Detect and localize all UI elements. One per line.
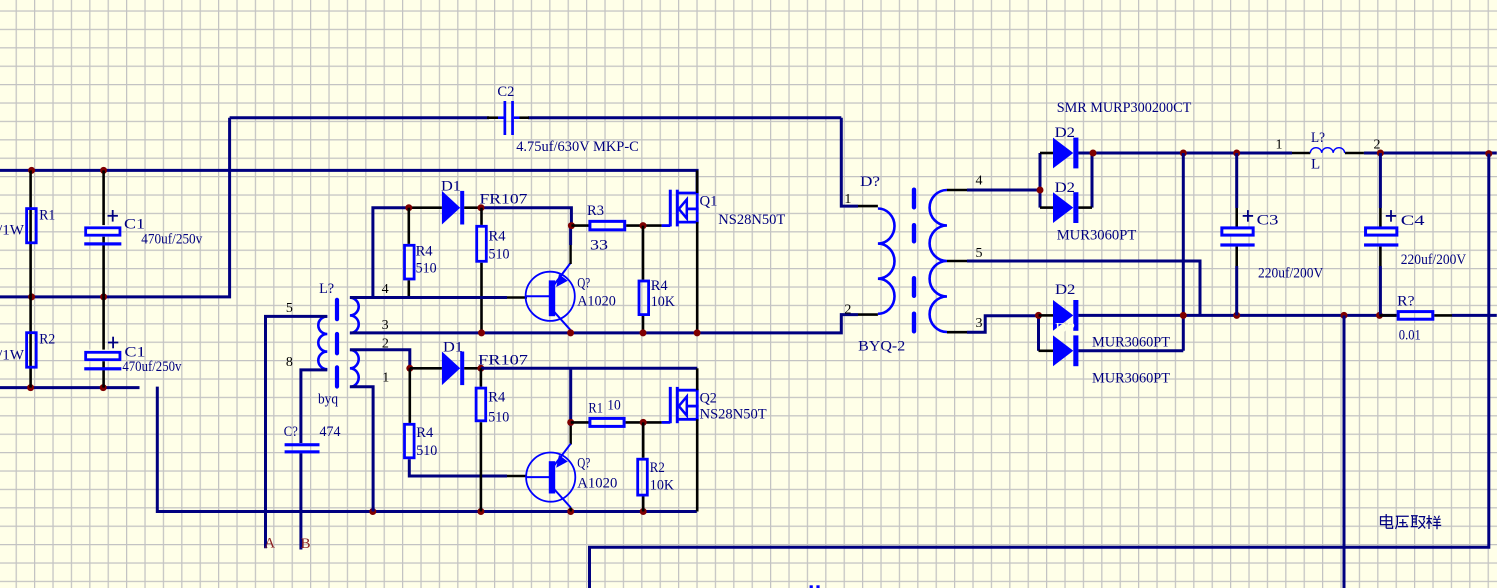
node dots bottom bus	[369, 508, 376, 515]
svg-text:10: 10	[607, 397, 621, 413]
capacitor C2	[487, 116, 498, 119]
svg-text:R4: R4	[416, 244, 433, 260]
wire C2 link corner to pin1	[841, 118, 858, 206]
svg-text:220uf/200V: 220uf/200V	[1401, 252, 1466, 268]
wire upper subcircuit top link	[373, 208, 409, 298]
svg-text:Q2: Q2	[700, 390, 717, 406]
wire rectifier link vertical	[1182, 153, 1185, 351]
wire rectifier lower connectors	[1037, 315, 1040, 350]
wire D1 cathode to R3 node	[481, 208, 571, 226]
transistor Q? A1020 lower	[526, 453, 575, 502]
diode D2 upper first	[1040, 152, 1053, 155]
svg-text:510: 510	[416, 261, 437, 277]
component stub bottom edge	[810, 585, 813, 588]
svg-text:C4: C4	[1401, 213, 1425, 229]
label voltage sense 电压取样	[1381, 514, 1442, 529]
diode D1 lower	[406, 365, 413, 372]
resistor R4 510 third	[408, 368, 411, 423]
resistor R? 0.01	[1380, 314, 1397, 317]
svg-text:5: 5	[286, 301, 293, 316]
svg-text:0.01: 0.01	[1399, 328, 1421, 344]
svg-text:NS28N50T: NS28N50T	[700, 407, 767, 423]
svg-text:8: 8	[286, 355, 293, 370]
svg-text:R?: R?	[1397, 294, 1415, 310]
wire node to R1 and emitter	[569, 368, 572, 426]
resistor R4 510 second	[480, 208, 483, 225]
svg-text:B: B	[301, 536, 311, 552]
wire pin5 to output return	[947, 260, 967, 263]
svg-text:1: 1	[382, 371, 389, 386]
transformer T1 byq secondary winding upper	[350, 298, 359, 333]
resistor R2	[29, 297, 32, 388]
capacitor C? 474	[285, 443, 320, 446]
svg-text:L?: L?	[319, 281, 334, 297]
wire pin4 to rectifier	[947, 189, 967, 192]
svg-text:D1: D1	[443, 339, 463, 355]
transformer T1 byq core	[335, 298, 339, 322]
svg-text:D1: D1	[441, 178, 461, 194]
svg-text:A1020: A1020	[577, 293, 616, 309]
wire drain bus to transformer pin2	[350, 315, 858, 333]
svg-text:Q1: Q1	[700, 193, 718, 209]
wire collector stub upper	[569, 330, 571, 333]
svg-text:SMR MURP300200CT: SMR MURP300200CT	[1057, 100, 1192, 116]
svg-text:A1020: A1020	[577, 475, 617, 491]
capacitor C1 upper	[102, 170, 105, 297]
capacitor C1 lower	[102, 297, 105, 388]
svg-text:C2: C2	[497, 84, 514, 100]
resistor R2 10K	[642, 422, 645, 457]
svg-text:R1: R1	[39, 207, 55, 223]
mosfet Q2	[669, 387, 672, 423]
svg-text:Q?: Q?	[577, 276, 590, 292]
resistor R4 10K	[642, 226, 645, 280]
svg-text:/1W: /1W	[0, 223, 25, 239]
wire C2 top link	[230, 116, 489, 119]
wire top-left rail	[0, 170, 697, 191]
resistor R4 510 fourth	[480, 368, 483, 386]
svg-text:D2: D2	[1055, 320, 1075, 336]
svg-text:4: 4	[382, 282, 389, 297]
svg-text:FR107: FR107	[478, 353, 529, 369]
svg-text:D2: D2	[1055, 125, 1075, 141]
wire bottom output rail	[1078, 314, 1396, 317]
diode D2 lower first	[1035, 312, 1042, 319]
wire byq pin5 to node A	[266, 316, 328, 548]
svg-text:1: 1	[844, 192, 851, 207]
node junction dots input rails	[28, 167, 35, 174]
svg-text:4: 4	[976, 173, 983, 188]
svg-text:2: 2	[1374, 138, 1381, 153]
resistor R1 10	[571, 421, 589, 424]
resistor R4 510 first	[407, 208, 410, 244]
svg-text:MUR3060PT: MUR3060PT	[1092, 370, 1170, 386]
svg-text:10K: 10K	[651, 294, 675, 310]
svg-text:C?: C?	[284, 424, 298, 440]
resistor R1	[29, 170, 32, 297]
wire collector stub lower	[570, 508, 572, 512]
svg-text:R2: R2	[39, 332, 55, 348]
svg-text:byq: byq	[318, 391, 338, 407]
svg-text:R2: R2	[650, 460, 665, 476]
wire sense tap vertical	[1343, 315, 1346, 588]
svg-text:510: 510	[488, 409, 509, 425]
capacitor C4	[1379, 153, 1382, 208]
inductor L? output	[1292, 152, 1310, 155]
transformer D? core	[912, 188, 916, 210]
svg-text:3: 3	[976, 316, 983, 331]
svg-text:470uf/250v: 470uf/250v	[122, 359, 181, 375]
capacitor C3	[1235, 153, 1238, 208]
wire base link upper	[350, 296, 507, 299]
svg-text:C3: C3	[1257, 212, 1279, 228]
transformer T1 byq secondary winding lower	[350, 350, 359, 387]
mosfet Q1	[669, 190, 672, 227]
svg-text:1: 1	[1276, 138, 1283, 153]
svg-text:D?: D?	[860, 174, 880, 190]
svg-text:33: 33	[590, 238, 608, 254]
svg-text:D2: D2	[1055, 282, 1075, 298]
svg-text:NS28N50T: NS28N50T	[718, 212, 785, 228]
wire D1 lower cathode link	[481, 367, 697, 370]
svg-text:/1W: /1W	[0, 348, 25, 364]
transistor Q? A1020 upper	[526, 272, 575, 321]
svg-text:470uf/250v: 470uf/250v	[141, 231, 202, 247]
wire byq pin8 to node B	[301, 370, 327, 443]
resistor R3	[590, 221, 625, 230]
wire pin3 to rectifier	[947, 331, 967, 334]
svg-text:D2: D2	[1055, 180, 1075, 196]
svg-text:R4: R4	[416, 425, 433, 441]
wire rectifier upper connectors	[1039, 153, 1042, 208]
wire byq pin2 link down	[350, 350, 410, 369]
label D2 under diode	[1053, 300, 1073, 331]
svg-text:C1: C1	[124, 216, 145, 232]
diode D1 upper	[409, 206, 442, 209]
svg-text:Q?: Q?	[577, 456, 590, 472]
svg-text:R1: R1	[588, 401, 603, 417]
svg-text:R4: R4	[488, 389, 505, 405]
svg-text:220uf/200V: 220uf/200V	[1258, 265, 1323, 281]
svg-text:BYQ-2: BYQ-2	[858, 339, 905, 355]
svg-text:MUR3060PT: MUR3060PT	[1057, 227, 1137, 243]
svg-text:L: L	[1311, 157, 1320, 173]
wire C? to node B	[299, 453, 302, 549]
svg-text:4.75uf/630V MKP-C: 4.75uf/630V MKP-C	[516, 139, 639, 155]
wire emitter stub upper	[569, 226, 572, 245]
wire gate line Q1	[568, 222, 575, 229]
wire byq pin1 to bus	[350, 387, 373, 512]
transformer T1 byq primary winding	[318, 316, 327, 369]
wire bottom bus	[157, 387, 697, 512]
wire mid-left rail to C2 branch	[0, 118, 230, 297]
wire top output rail	[1078, 152, 1292, 155]
svg-text:5: 5	[976, 246, 983, 261]
wire bottom input rail	[0, 386, 140, 389]
svg-text:MUR3060PT: MUR3060PT	[1092, 335, 1170, 351]
transformer D? primary winding	[878, 209, 895, 314]
svg-text:510: 510	[416, 443, 437, 459]
transformer D? secondary winding	[930, 190, 947, 332]
svg-text:R3: R3	[587, 203, 604, 219]
svg-text:510: 510	[489, 246, 510, 262]
svg-text:A: A	[264, 535, 275, 551]
wire sense loop right	[590, 154, 1489, 588]
svg-text:474: 474	[320, 424, 341, 440]
svg-text:2: 2	[844, 302, 851, 317]
svg-text:FR107: FR107	[480, 192, 529, 208]
svg-text:R4: R4	[651, 278, 668, 294]
transparent right margin	[1497, 0, 1502, 588]
svg-text:3: 3	[382, 318, 389, 333]
svg-text:10K: 10K	[650, 478, 674, 494]
svg-text:R4: R4	[489, 228, 506, 244]
diode D2 lower second	[1039, 349, 1054, 352]
svg-text:L?: L?	[1311, 130, 1325, 146]
diode D2 upper second	[1040, 206, 1053, 209]
